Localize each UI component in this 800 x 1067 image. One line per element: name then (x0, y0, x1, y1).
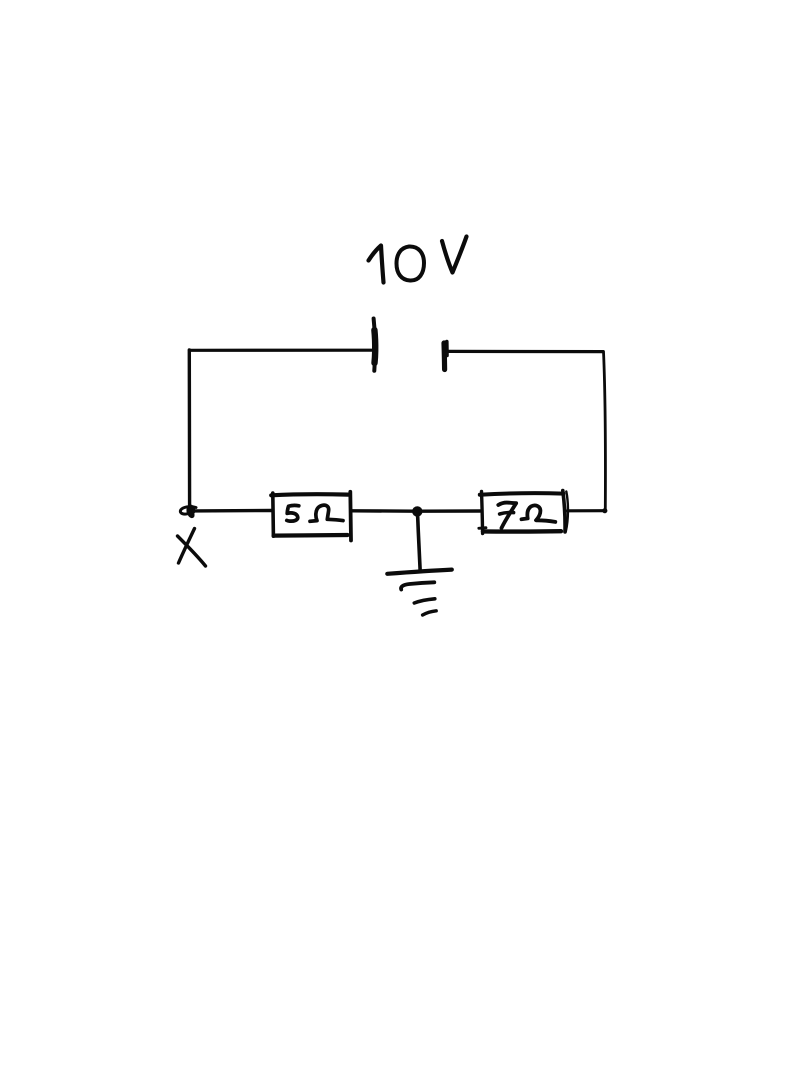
wire bottom segment junction-to-R2 (420, 509, 480, 513)
label 10V digit 1 (369, 246, 384, 283)
resistor R2 box (482, 492, 483, 534)
wire top-left horizontal (190, 349, 372, 352)
resistor R1 value 5 (287, 505, 299, 521)
label 10V digit 0 (397, 246, 425, 280)
wire bottom segment R2-to-right-corner (568, 509, 606, 512)
resistor R1 box (271, 493, 275, 536)
resistor R2 value omega (522, 505, 556, 521)
node X scribble (180, 506, 196, 517)
label 10V letter V (442, 237, 467, 273)
junction dot (412, 506, 422, 516)
label X (179, 529, 195, 564)
wire bottom segment node-to-R1 (193, 509, 272, 513)
ground bar 1 (387, 570, 452, 574)
wire left vertical (188, 350, 192, 509)
wire right vertical (604, 352, 606, 511)
ground bar 2 (401, 582, 434, 589)
resistor R1 value omega (310, 505, 343, 521)
ground bar 4 (423, 611, 437, 615)
wire top-right horizontal (449, 350, 604, 353)
wire bottom segment R1-to-junction (352, 509, 415, 513)
battery long plate (374, 319, 375, 371)
battery short plate (441, 343, 447, 370)
ground bar 3 (414, 599, 435, 603)
resistor R2 value 7 (498, 503, 516, 528)
ground stem (418, 515, 421, 570)
